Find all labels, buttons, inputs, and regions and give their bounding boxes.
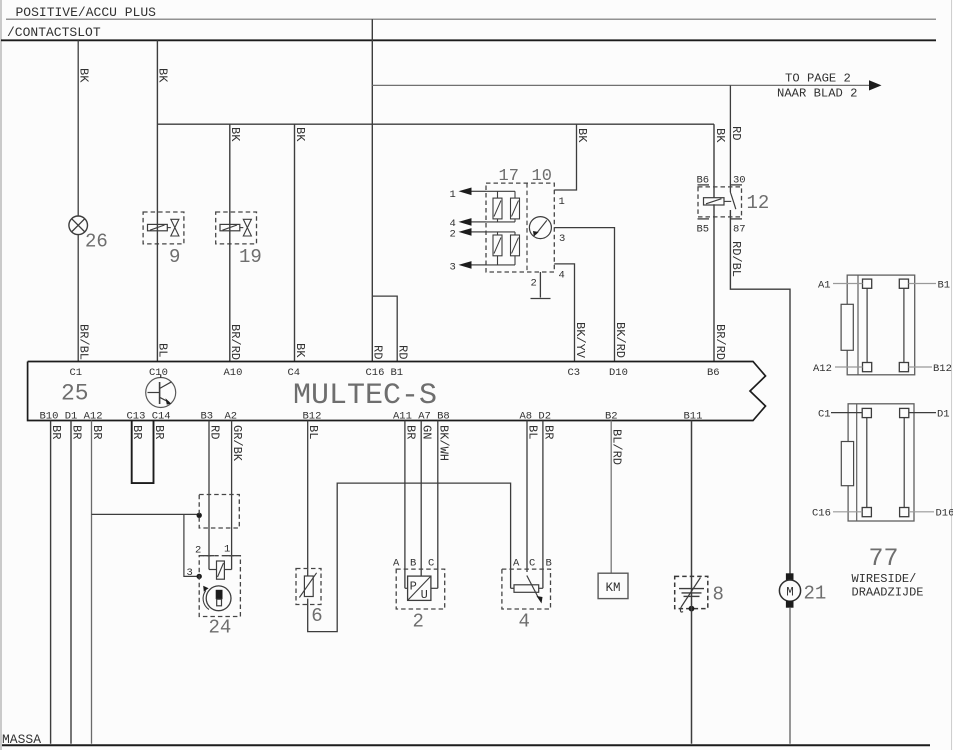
wire branch to switch pin 3 bbox=[184, 514, 199, 576]
svg-text:RD/BL: RD/BL bbox=[729, 241, 743, 277]
coil L3 bbox=[493, 235, 502, 256]
svg-text:BL/RD: BL/RD bbox=[610, 429, 624, 465]
throttle potentiometer 4 bbox=[502, 569, 551, 609]
svg-text:M: M bbox=[786, 586, 794, 600]
pin B12 square bbox=[899, 363, 908, 372]
svg-text:2: 2 bbox=[450, 229, 456, 241]
node sensor 8 ground bbox=[689, 606, 695, 612]
svg-text:A8 D2: A8 D2 bbox=[520, 411, 552, 423]
svg-text:C16: C16 bbox=[812, 508, 831, 520]
wire motor 21 to massa bbox=[789, 608, 791, 744]
svg-text:BK: BK bbox=[713, 128, 727, 143]
svg-text:4: 4 bbox=[519, 611, 530, 633]
svg-text:RD: RD bbox=[371, 345, 385, 359]
svg-text:A1: A1 bbox=[818, 280, 831, 292]
svg-text:GN: GN bbox=[420, 425, 434, 439]
wire D1-D16 bbox=[903, 418, 905, 508]
wire BK to lamp 26 bbox=[77, 40, 79, 216]
wire BK to injector 9 bbox=[156, 40, 158, 212]
wire BK to C4 bbox=[294, 124, 296, 361]
svg-text:A10: A10 bbox=[224, 367, 243, 379]
svg-text:C1: C1 bbox=[70, 367, 83, 379]
wire C1-C16 bbox=[866, 418, 868, 508]
svg-text:A2: A2 bbox=[225, 411, 238, 423]
svg-text:GR/BK: GR/BK bbox=[230, 425, 244, 462]
svg-text:2: 2 bbox=[195, 545, 201, 557]
pin 2 wire to ground bbox=[539, 272, 541, 298]
wire sensor 8 to massa bbox=[691, 589, 693, 744]
svg-text:DRAADZIJDE: DRAADZIJDE bbox=[852, 586, 924, 600]
svg-text:BR/RD: BR/RD bbox=[713, 324, 727, 360]
lamp 26 bbox=[69, 216, 88, 235]
svg-text:C: C bbox=[529, 558, 535, 570]
gauge sensor 10 bbox=[529, 217, 551, 239]
svg-text:B1: B1 bbox=[938, 280, 951, 292]
svg-text:TO PAGE 2: TO PAGE 2 bbox=[785, 72, 851, 86]
wire branch A12 to switch 24 bbox=[92, 513, 200, 515]
svg-text:D16: D16 bbox=[936, 508, 953, 520]
svg-text:C16: C16 bbox=[366, 367, 385, 379]
knock sensor 8 bbox=[675, 576, 708, 608]
svg-text:BR: BR bbox=[90, 425, 104, 439]
svg-text:BR: BR bbox=[70, 425, 84, 439]
node switch pin 3 bbox=[197, 574, 202, 579]
svg-text:RD: RD bbox=[396, 345, 410, 359]
svg-text:BR/RD: BR/RD bbox=[228, 324, 242, 360]
svg-text:BR: BR bbox=[152, 425, 166, 439]
injector 9 bbox=[143, 212, 184, 244]
svg-text:4: 4 bbox=[559, 270, 565, 282]
svg-text:BL: BL bbox=[526, 425, 540, 439]
wire BR from B10 to massa bbox=[50, 421, 52, 744]
svg-text:2: 2 bbox=[413, 611, 424, 633]
svg-text:/CONTACTSLOT: /CONTACTSLOT bbox=[7, 25, 101, 40]
svg-text:C: C bbox=[428, 558, 434, 570]
svg-text:P: P bbox=[410, 580, 417, 594]
svg-text:24: 24 bbox=[209, 617, 232, 639]
svg-text:6: 6 bbox=[311, 605, 322, 627]
wire BL injector 9 to C10 bbox=[156, 244, 158, 362]
svg-text:B1: B1 bbox=[391, 367, 404, 379]
svg-text:U: U bbox=[421, 588, 428, 602]
pin 1 internal wiring bbox=[486, 190, 515, 192]
svg-text:3: 3 bbox=[187, 567, 193, 579]
key symbol bbox=[206, 586, 231, 611]
svg-text:BK/WH: BK/WH bbox=[436, 425, 450, 461]
wire B1-B12 bbox=[903, 288, 905, 362]
svg-text:21: 21 bbox=[804, 583, 827, 605]
pin D16 square bbox=[900, 508, 909, 517]
svg-text:C3: C3 bbox=[568, 367, 581, 379]
svg-text:77: 77 bbox=[869, 544, 899, 573]
svg-text:B11: B11 bbox=[684, 411, 703, 423]
svg-text:B: B bbox=[546, 558, 552, 570]
svg-text:B: B bbox=[410, 558, 416, 570]
coil L2 bbox=[511, 198, 520, 219]
pin C16 square bbox=[862, 508, 871, 517]
pin 4 wire BK/YV to C3 bbox=[554, 264, 574, 362]
svg-text:RD: RD bbox=[208, 425, 222, 439]
wire BR/RD relay B5 to ECU B6 bbox=[713, 204, 715, 361]
svg-text:BR: BR bbox=[130, 425, 144, 439]
jumper loop C13 C14 bbox=[132, 421, 154, 484]
wire RD branch to B1 bbox=[372, 296, 397, 361]
pin B1 square bbox=[899, 279, 908, 288]
svg-text:B3: B3 bbox=[201, 411, 214, 423]
svg-text:3: 3 bbox=[559, 233, 565, 245]
wire from B11 to sensor 8 bbox=[691, 421, 693, 589]
node on switch 24 housing bbox=[197, 513, 202, 518]
module KM bbox=[598, 573, 628, 598]
svg-text:87: 87 bbox=[733, 224, 746, 236]
injector 19 bbox=[216, 212, 257, 244]
wire BR/BL lamp to C1 bbox=[77, 235, 79, 362]
wire BR/RD injector 19 to A10 bbox=[229, 244, 231, 362]
coil L1 bbox=[493, 198, 502, 219]
svg-text:B12: B12 bbox=[303, 411, 322, 423]
svg-text:A12: A12 bbox=[813, 363, 832, 375]
svg-text:C1: C1 bbox=[818, 409, 831, 421]
svg-text:BK/RD: BK/RD bbox=[613, 322, 627, 358]
svg-text:BK: BK bbox=[77, 68, 91, 83]
svg-text:RD: RD bbox=[729, 126, 743, 140]
svg-text:B5: B5 bbox=[697, 224, 710, 236]
wire RD from B3 to switch 24 bbox=[208, 421, 210, 570]
svg-text:BK: BK bbox=[293, 127, 307, 142]
wire BL from A8 to pot 4 bbox=[526, 421, 528, 573]
svg-text:NAAR BLAD 2: NAAR BLAD 2 bbox=[777, 87, 857, 101]
wire RD to relay 12 terminal 30 bbox=[729, 85, 731, 192]
wire rail positive/accu plus bbox=[6, 18, 936, 20]
svg-text:A: A bbox=[393, 558, 400, 570]
svg-text:9: 9 bbox=[169, 246, 180, 268]
wire BL/RD from B2 to KM bbox=[610, 421, 612, 574]
connector view block A-B bbox=[847, 275, 915, 375]
motor 21 bbox=[786, 573, 794, 580]
ground bbox=[531, 298, 551, 300]
svg-text:1: 1 bbox=[450, 189, 456, 201]
switch 24 contact bbox=[209, 569, 217, 571]
svg-text:KM: KM bbox=[605, 581, 620, 595]
svg-text:8: 8 bbox=[713, 584, 724, 606]
svg-text:MULTEC-S: MULTEC-S bbox=[293, 379, 437, 413]
svg-text:BK: BK bbox=[156, 68, 170, 83]
wire GN from A7 to sensor 2 bbox=[420, 421, 422, 577]
coolant sensor 6 bbox=[296, 569, 321, 605]
wire BR from D1 to massa bbox=[70, 421, 72, 744]
switch 24 connector housing bbox=[199, 495, 239, 529]
MAP sensor 2 bbox=[396, 569, 445, 609]
svg-text:C13 C14: C13 C14 bbox=[127, 411, 171, 423]
wire A1-A12 bbox=[866, 288, 868, 362]
svg-text:BK: BK bbox=[293, 343, 307, 358]
switch 24 body bbox=[203, 555, 214, 557]
connector view block C-D bbox=[848, 404, 914, 521]
svg-text:WIRESIDE/: WIRESIDE/ bbox=[852, 572, 917, 586]
svg-text:BK: BK bbox=[228, 127, 242, 142]
wire BK bus to relay 12 terminal B6 bbox=[713, 124, 715, 198]
wire rail contactslot bbox=[1, 39, 936, 41]
svg-text:B6: B6 bbox=[707, 367, 720, 379]
svg-text:BR: BR bbox=[49, 425, 63, 439]
pin 3 wire BK/RD to D10 bbox=[554, 228, 614, 362]
svg-text:BR: BR bbox=[403, 425, 417, 439]
pin D1 square bbox=[900, 408, 909, 417]
page left edge bbox=[0, 0, 2, 750]
svg-text:D10: D10 bbox=[609, 367, 628, 379]
ECU 25 MULTEC-S box bbox=[28, 362, 766, 421]
page right edge bbox=[951, 0, 953, 750]
wire BR from A12 to massa bbox=[91, 421, 93, 744]
svg-text:BL: BL bbox=[156, 343, 170, 357]
svg-text:BR: BR bbox=[541, 425, 555, 439]
svg-text:A: A bbox=[513, 558, 520, 570]
svg-text:BR/BL: BR/BL bbox=[77, 324, 91, 360]
pin C1 square bbox=[862, 408, 871, 417]
svg-text:BK/YV: BK/YV bbox=[573, 322, 587, 359]
svg-text:26: 26 bbox=[85, 231, 108, 253]
svg-text:3: 3 bbox=[450, 262, 456, 274]
wire BL from B12 to sensor 6 bbox=[307, 421, 309, 570]
svg-text:B12: B12 bbox=[933, 363, 952, 375]
svg-text:1: 1 bbox=[224, 544, 230, 556]
wire GR/BK from A2 to switch 24 bbox=[231, 421, 233, 570]
pin A12 square bbox=[863, 363, 872, 372]
wire distribution bus y=124 bbox=[157, 123, 714, 125]
pin 2 internal wiring bbox=[486, 231, 515, 233]
wire BR from A11 to sensor 2 bbox=[404, 421, 406, 589]
wire BR from D2 to pot 4 bbox=[542, 421, 544, 589]
pot 4 wiper bbox=[527, 576, 538, 598]
svg-text:12: 12 bbox=[747, 192, 770, 214]
svg-text:2: 2 bbox=[531, 278, 537, 290]
coil L4 bbox=[511, 235, 520, 256]
pin 4 internal wiring bbox=[486, 221, 515, 223]
svg-text:BK: BK bbox=[575, 128, 589, 143]
wire BK to injector 19 bbox=[229, 124, 231, 212]
arrow to page 2 bbox=[869, 80, 882, 90]
wire RD from positive rail to C16 bbox=[371, 19, 373, 361]
wire RD/BL relay 87 to motor 21 bbox=[730, 210, 790, 574]
svg-text:BL: BL bbox=[306, 425, 320, 439]
svg-text:D1: D1 bbox=[937, 409, 950, 421]
wire sensor 6 to bus bbox=[308, 483, 511, 631]
pin A1 square bbox=[863, 279, 872, 288]
wire BK/WH from B8 to sensor 2 bbox=[437, 421, 439, 589]
svg-text:C4: C4 bbox=[288, 367, 301, 379]
svg-text:25: 25 bbox=[61, 381, 89, 407]
pin 3 internal wiring bbox=[486, 264, 515, 266]
svg-text:POSITIVE/ACCU PLUS: POSITIVE/ACCU PLUS bbox=[16, 5, 157, 20]
transistor Q1 at C10 bbox=[146, 378, 176, 408]
wire to page 2 bbox=[372, 84, 869, 86]
svg-text:19: 19 bbox=[239, 246, 262, 268]
svg-text:1: 1 bbox=[559, 196, 565, 208]
wire massa rail bbox=[2, 744, 930, 746]
pin 1 wire BK to bus bbox=[554, 124, 576, 190]
